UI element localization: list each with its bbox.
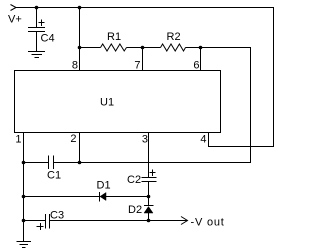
svg-text:8: 8 <box>72 60 78 72</box>
svg-text:R2: R2 <box>167 31 181 43</box>
svg-text:4: 4 <box>200 134 206 146</box>
svg-text:U1: U1 <box>100 97 114 109</box>
svg-text:R1: R1 <box>107 31 121 43</box>
svg-text:C4: C4 <box>41 33 55 45</box>
svg-text:C1: C1 <box>47 170 61 182</box>
svg-text:D1: D1 <box>97 180 111 192</box>
svg-text:V+: V+ <box>8 14 22 26</box>
svg-text:2: 2 <box>70 133 76 145</box>
svg-text:1: 1 <box>15 134 21 146</box>
svg-text:C2: C2 <box>127 174 141 186</box>
svg-text:-V out: -V out <box>191 217 225 229</box>
svg-text:3: 3 <box>142 134 148 146</box>
svg-text:7: 7 <box>134 60 140 72</box>
svg-text:D2: D2 <box>128 204 142 216</box>
svg-text:C3: C3 <box>50 210 64 222</box>
svg-text:6: 6 <box>193 60 199 72</box>
